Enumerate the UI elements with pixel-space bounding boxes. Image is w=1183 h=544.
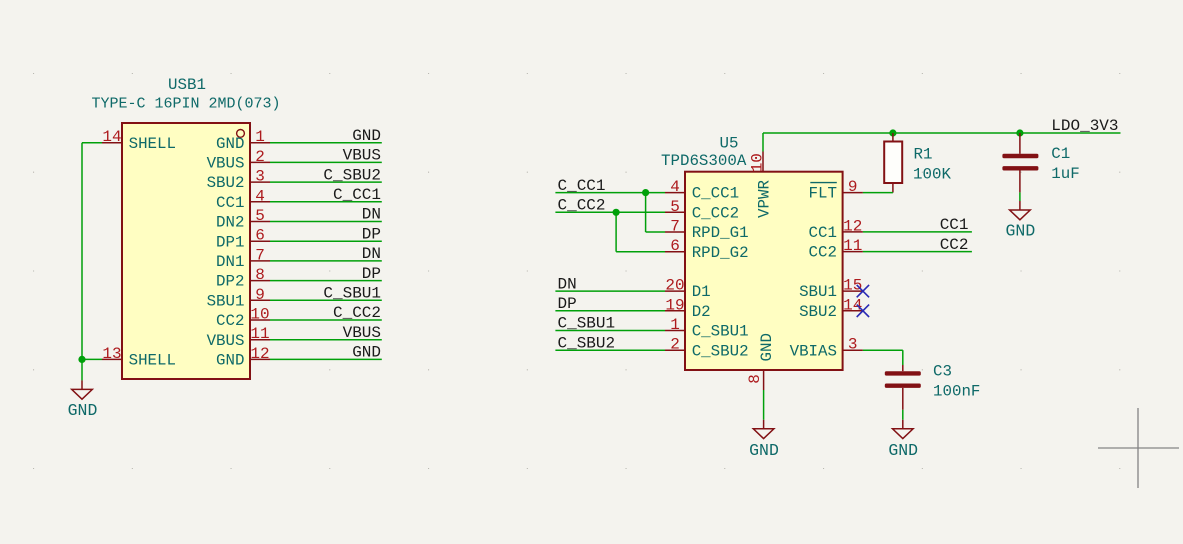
wire SHELL pin 14 to vertical bus — [82, 142, 102, 144]
svg-text:SBU2: SBU2 — [207, 174, 245, 192]
svg-text:12: 12 — [843, 217, 862, 235]
svg-text:VBIAS: VBIAS — [790, 342, 837, 360]
wire pin 2 to label VBUS — [270, 161, 382, 163]
USB1 pin 10 (CC2) — [216, 306, 270, 331]
svg-text:4: 4 — [255, 187, 265, 205]
USB1 pin 6 (DP1) — [216, 227, 270, 252]
sheet origin crosshair — [1098, 408, 1179, 488]
USB1 pin 9 (SBU1) — [207, 286, 270, 311]
svg-text:C3: C3 — [933, 363, 952, 381]
svg-text:DN: DN — [362, 206, 381, 224]
U5 pin 11 (CC2) — [809, 237, 863, 262]
net label VBUS — [343, 147, 381, 165]
C3 reference — [933, 363, 952, 381]
resistor R1 — [884, 133, 902, 193]
U5 pin 20 (D1) — [665, 277, 711, 302]
wire C_CC2 to U5 — [555, 211, 665, 213]
wire pin 8 to label DP — [270, 280, 382, 282]
wire pin 10 to label C_CC2 — [270, 319, 382, 321]
svg-text:DP: DP — [558, 295, 577, 313]
svg-text:9: 9 — [255, 286, 265, 304]
svg-text:U5: U5 — [720, 135, 739, 153]
svg-text:C_CC1: C_CC1 — [692, 185, 739, 203]
svg-text:GND: GND — [216, 352, 244, 370]
net label DP — [362, 265, 381, 283]
wire U5 GND pin down — [763, 390, 765, 420]
USB1 pin 13 (SHELL) — [102, 345, 176, 370]
U5 pin 10 (VPWR) — [748, 152, 773, 219]
svg-text:C_SBU2: C_SBU2 — [558, 334, 616, 352]
wire C_SBU1 to U5 — [555, 330, 665, 332]
svg-text:1uF: 1uF — [1051, 165, 1079, 183]
svg-text:12: 12 — [250, 345, 269, 363]
wire C1 down to GND — [1019, 192, 1021, 201]
R1 reference — [914, 145, 933, 163]
svg-text:C_CC1: C_CC1 — [333, 186, 381, 204]
USB1 pin 5 (DN2) — [216, 207, 270, 232]
svg-text:VBUS: VBUS — [207, 155, 245, 173]
net label DP — [558, 295, 577, 313]
svg-text:GND: GND — [749, 441, 779, 460]
U5 pin 6 (RPD_G2) — [665, 237, 749, 262]
svg-text:C_SBU1: C_SBU1 — [692, 323, 749, 341]
svg-text:C_CC1: C_CC1 — [558, 177, 606, 195]
U5 pin 2 (C_SBU2) — [665, 336, 749, 361]
svg-text:FLT: FLT — [809, 185, 837, 203]
svg-text:14: 14 — [102, 128, 121, 146]
svg-text:CC1: CC1 — [809, 224, 837, 242]
svg-text:GND: GND — [68, 401, 98, 420]
svg-text:D1: D1 — [692, 283, 711, 301]
net label GND — [352, 127, 381, 145]
IC U5 body — [685, 172, 843, 370]
pin 1 decoration circle — [237, 130, 245, 138]
USB1 pin 11 (VBUS) — [207, 325, 270, 350]
net label C_SBU2 — [323, 166, 381, 184]
svg-text:6: 6 — [255, 227, 265, 245]
USB1 pin 1 (GND) — [216, 128, 270, 153]
svg-text:SHELL: SHELL — [129, 135, 176, 153]
svg-text:GND: GND — [352, 127, 381, 145]
wire VPWR up to rail — [762, 133, 764, 152]
net label DN — [558, 275, 577, 293]
ground symbol GND (C1) — [1006, 201, 1036, 241]
U5 pin 12 (CC1) — [809, 217, 863, 242]
svg-text:6: 6 — [670, 237, 680, 255]
net label DN — [362, 245, 381, 263]
svg-text:8: 8 — [255, 266, 265, 284]
svg-text:VPWR: VPWR — [756, 180, 774, 218]
U5 pin 9 (FLT, active low) — [809, 178, 863, 203]
wire pin 1 to label GND — [270, 142, 382, 144]
U5 pin 19 (D2) — [665, 296, 711, 321]
junction on C_CC2 wire — [613, 209, 620, 216]
svg-text:1: 1 — [255, 128, 265, 146]
svg-text:10: 10 — [250, 306, 269, 324]
svg-text:SHELL: SHELL — [129, 352, 176, 370]
wire C_CC2 junction down to RPD_G2 — [616, 212, 665, 251]
svg-text:R1: R1 — [914, 145, 933, 163]
svg-text:SBU1: SBU1 — [207, 292, 245, 310]
C1 reference — [1051, 145, 1070, 163]
no-connect X on pin 14 — [857, 305, 869, 317]
U5 pin 3 (VBIAS) — [790, 336, 863, 361]
R1 value 100K — [913, 165, 951, 183]
USB1 pin 12 (GND) — [216, 345, 270, 370]
svg-text:2: 2 — [255, 148, 265, 166]
U5 pin 8 (GND) — [746, 333, 776, 390]
wire pin 3 to label C_SBU2 — [270, 181, 382, 183]
svg-text:RPD_G1: RPD_G1 — [692, 224, 749, 242]
wire DN to U5 — [555, 290, 665, 292]
USB1 pin 2 (VBUS) — [207, 148, 270, 173]
wire vertical SHELL bus — [81, 143, 83, 360]
svg-text:TPD6S300A: TPD6S300A — [661, 152, 747, 170]
svg-text:CC2: CC2 — [809, 244, 837, 262]
svg-text:1: 1 — [670, 316, 680, 334]
svg-text:DN2: DN2 — [216, 214, 244, 232]
net label C_CC2 — [333, 304, 381, 322]
svg-text:GND: GND — [1006, 222, 1036, 241]
no-connect X on pin 15 — [857, 285, 869, 297]
svg-text:C_SBU1: C_SBU1 — [558, 315, 616, 333]
svg-text:CC2: CC2 — [216, 312, 244, 330]
svg-text:D2: D2 — [692, 303, 711, 321]
USB1 pin 7 (DN1) — [216, 246, 270, 271]
USB1 pin 3 (SBU2) — [207, 168, 270, 193]
U5 pin 4 (C_CC1) — [665, 178, 739, 203]
net label C_SBU2 — [558, 334, 616, 352]
connector USB1 body — [122, 123, 250, 379]
svg-text:VBUS: VBUS — [343, 147, 381, 165]
USB1 pin 4 (CC1) — [216, 187, 270, 212]
net label C_CC1 — [558, 177, 606, 195]
svg-text:USB1: USB1 — [168, 76, 206, 94]
net label DN — [362, 206, 381, 224]
wire SHELL pin 13 stub — [82, 358, 102, 360]
svg-text:VBUS: VBUS — [343, 324, 381, 342]
svg-text:SBU1: SBU1 — [799, 283, 837, 301]
wire CC1 — [863, 231, 972, 233]
wire pin 5 to label DN — [270, 221, 382, 223]
wire pin 4 to label C_CC1 — [270, 201, 382, 203]
svg-text:5: 5 — [670, 198, 680, 216]
ground symbol GND (C3) — [888, 420, 918, 460]
svg-text:C_CC2: C_CC2 — [692, 204, 739, 222]
wire junction down to GND — [81, 359, 83, 380]
svg-text:7: 7 — [255, 246, 265, 264]
svg-text:7: 7 — [670, 218, 680, 236]
junction on C_CC1 wire — [642, 189, 649, 196]
wire C_SBU2 to U5 — [555, 349, 665, 351]
wire pin 6 to label DP — [270, 240, 382, 242]
svg-text:14: 14 — [843, 296, 862, 314]
svg-text:3: 3 — [255, 168, 265, 186]
wire pin 9 to label C_SBU1 — [270, 299, 382, 301]
net label LDO_3V3 — [1051, 117, 1118, 135]
svg-text:VBUS: VBUS — [207, 332, 245, 350]
svg-text:19: 19 — [665, 296, 684, 314]
USB1 pin 14 (SHELL) — [102, 128, 176, 153]
svg-text:9: 9 — [848, 178, 858, 196]
ground symbol GND (U5 pin 8) — [749, 420, 779, 460]
svg-text:15: 15 — [843, 277, 862, 295]
svg-text:11: 11 — [843, 237, 862, 255]
wire VBIAS to C3 — [863, 350, 903, 365]
svg-text:DN: DN — [558, 275, 577, 293]
wire DP to U5 — [555, 310, 665, 312]
U5 pin 5 (C_CC2) — [665, 198, 739, 223]
U5 value TPD6S300A — [661, 152, 747, 170]
ground symbol GND (USB1 shell) — [68, 380, 98, 420]
net label CC1 — [940, 216, 969, 234]
USB1 reference designator — [168, 76, 206, 94]
svg-text:LDO_3V3: LDO_3V3 — [1051, 117, 1118, 135]
wire C_CC1 junction down to RPD_G1 — [646, 193, 665, 232]
net label C_CC1 — [333, 186, 381, 204]
svg-text:10: 10 — [748, 153, 766, 172]
svg-text:C1: C1 — [1051, 145, 1070, 163]
svg-text:C_SBU2: C_SBU2 — [323, 166, 381, 184]
svg-text:DN1: DN1 — [216, 253, 244, 271]
svg-text:C_CC2: C_CC2 — [558, 197, 606, 215]
USB1 value TYPE-C 16PIN 2MD(073) — [91, 96, 280, 113]
USB1 pin 8 (DP2) — [216, 266, 270, 291]
net label DP — [362, 225, 381, 243]
svg-text:GND: GND — [216, 135, 244, 153]
U5 reference designator — [720, 135, 739, 153]
svg-text:20: 20 — [665, 277, 684, 295]
C1 value 1uF — [1051, 165, 1079, 183]
svg-text:CC1: CC1 — [216, 194, 244, 212]
wire pin 7 to label DN — [270, 260, 382, 262]
svg-text:2: 2 — [670, 336, 680, 354]
svg-text:DP: DP — [362, 265, 381, 283]
svg-text:3: 3 — [848, 336, 858, 354]
capacitor C1 — [1002, 133, 1038, 192]
wire pin 11 to label VBUS — [270, 339, 382, 341]
net label C_SBU1 — [558, 315, 616, 333]
wire R1 to FLT pin 9 — [863, 192, 893, 194]
svg-text:TYPE-C 16PIN 2MD(073): TYPE-C 16PIN 2MD(073) — [91, 96, 280, 113]
net label GND — [352, 344, 381, 362]
svg-text:11: 11 — [250, 325, 269, 343]
net label C_CC2 — [558, 197, 606, 215]
wire pin 12 to label GND — [270, 358, 382, 360]
junction rail to R1 — [889, 129, 896, 136]
svg-text:C_SBU2: C_SBU2 — [692, 342, 749, 360]
net label VBUS — [343, 324, 381, 342]
svg-text:DP: DP — [362, 225, 381, 243]
U5 pin 15 (SBU1) — [799, 277, 863, 302]
wire LDO_3V3 rail — [763, 132, 1121, 134]
svg-text:8: 8 — [746, 374, 764, 384]
svg-text:DP1: DP1 — [216, 233, 244, 251]
U5 pin 7 (RPD_G1) — [665, 218, 749, 243]
svg-text:GND: GND — [758, 333, 776, 361]
C3 value 100nF — [933, 383, 980, 401]
wire C3 down to GND — [902, 410, 904, 420]
wire C_CC1 to U5 — [555, 192, 665, 194]
net label C_SBU1 — [323, 285, 381, 303]
svg-text:4: 4 — [670, 178, 680, 196]
net label CC2 — [940, 236, 969, 254]
svg-text:RPD_G2: RPD_G2 — [692, 244, 749, 262]
svg-text:GND: GND — [352, 344, 381, 362]
svg-text:C_CC2: C_CC2 — [333, 304, 381, 322]
capacitor C3 — [885, 365, 921, 410]
junction rail to C1 — [1016, 129, 1023, 136]
svg-text:DN: DN — [362, 245, 381, 263]
junction at SHELL pin 13 — [78, 356, 85, 363]
U5 pin 14 (SBU2) — [799, 296, 863, 321]
svg-text:DP2: DP2 — [216, 273, 244, 291]
svg-text:CC2: CC2 — [940, 236, 969, 254]
wire CC2 — [863, 251, 972, 253]
svg-text:CC1: CC1 — [940, 216, 969, 234]
svg-text:100nF: 100nF — [933, 383, 980, 401]
svg-text:SBU2: SBU2 — [799, 303, 837, 321]
svg-text:C_SBU1: C_SBU1 — [323, 285, 381, 303]
svg-text:GND: GND — [888, 441, 918, 460]
svg-text:5: 5 — [255, 207, 265, 225]
svg-text:100K: 100K — [913, 165, 951, 183]
U5 pin 1 (C_SBU1) — [665, 316, 749, 341]
svg-text:13: 13 — [102, 345, 121, 363]
